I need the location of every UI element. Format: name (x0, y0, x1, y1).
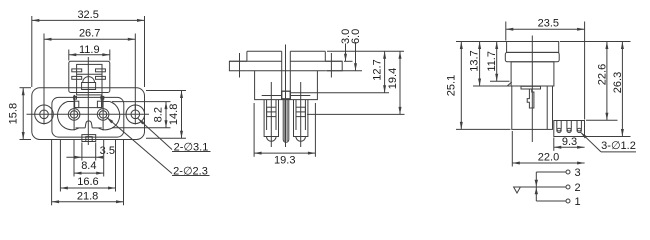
front view: left mounting hole (40, 110, 49, 119)
dimension 6.0 line (355, 44, 357, 71)
front view: right pin inner circle (99, 111, 106, 118)
dimension 16.6 extension line left (59, 139, 61, 192)
dimension 12.7 (384, 51, 386, 92)
latch housing outer rect (69, 61, 110, 92)
svg-text:11.9: 11.9 (79, 44, 100, 56)
side view: latch tongue (527, 89, 534, 108)
schematic: pin 2 terminal circle (566, 185, 570, 189)
dimension 26.7 extension line right (134, 34, 136, 111)
dimension 3.5 extension line left (81, 143, 83, 161)
dimension 19.3 (254, 152, 315, 154)
side view: top cap rect (507, 42, 559, 53)
side view: cap top extension line right (560, 41, 631, 43)
dimension 15.8 extension line top (20, 87, 32, 89)
front view: flange outline (32, 88, 145, 140)
front view: bottom tab outer (82, 135, 96, 142)
side view: second tier rect (505, 52, 559, 61)
dimension 14.8 extension line top (146, 90, 186, 92)
front view: left socket lobe arc (58, 102, 79, 130)
dimension 3.5 extension line right (95, 143, 97, 161)
dimension 26.3 extension line bottom (586, 136, 631, 138)
front view: right hole pocket circle (126, 105, 145, 124)
dimension 16.6 (60, 187, 115, 189)
front view: recess rounded rectangle (52, 97, 124, 137)
side view: body inner wall (546, 86, 548, 129)
dimension 13.7 extension line bottom (473, 85, 511, 87)
side view: terminal block (554, 121, 585, 137)
dimension 32.5 (32, 19, 145, 21)
schematic: pin 3 terminal circle (566, 170, 570, 174)
dimension 15.8 extension line bottom (20, 139, 32, 141)
dimension 8.4 (74, 172, 104, 174)
latch dome chord (83, 82, 95, 84)
svg-text:3-∅1.2: 3-∅1.2 (601, 140, 636, 152)
latch right wall into recess (101, 95, 103, 108)
dimension 22.0 extension line left (511, 131, 513, 167)
dimension 26.7 extension line left (43, 34, 45, 111)
front view: socket flat top shelf left (68, 101, 75, 103)
bottom view: left pin hole middle line (267, 111, 276, 113)
bottom view: left pin hole (267, 107, 276, 116)
dimension 8.2 (165, 102, 167, 128)
svg-text:19.3: 19.3 (274, 155, 295, 167)
svg-text:3: 3 (574, 167, 580, 179)
bottom view: flange top edge right segment (290, 50, 325, 52)
front view: socket flat bottom left segment (76, 127, 86, 129)
front view: right pin centerline (102, 98, 104, 131)
bottom view: right pin bottom arc (296, 137, 306, 142)
dimension 14.8 (181, 91, 183, 139)
side view: terminal pin 3 (577, 121, 581, 132)
dimension 32.5 extension line left (31, 16, 33, 87)
dimension 21.8 (52, 201, 124, 203)
dimension 13.7 (479, 42, 481, 87)
latch right foot (97, 101, 101, 107)
front view: left pin inner circle (70, 111, 77, 118)
dimension 22.6 (606, 42, 608, 121)
bottom view: left pin body (264, 100, 278, 137)
bottom view: right tab centerline (330, 53, 332, 78)
leader 2-dia2.3 underline (172, 175, 210, 177)
side view: terminal pin 1 hole (557, 128, 561, 132)
front view: left hole pocket circle (35, 105, 54, 124)
bottom view: left pin centerline (270, 82, 272, 147)
leader 2-dia3.1 underline (172, 151, 211, 153)
bottom view: flange mid line right (290, 60, 342, 62)
dimension 26.3 (621, 42, 623, 137)
svg-text:2-∅3.1: 2-∅3.1 (174, 142, 209, 154)
dimension 19.3 extension line right (314, 103, 316, 157)
dimension 8.2 extension line top (112, 101, 171, 103)
schematic: pin 1 terminal circle (566, 199, 570, 203)
bottom view: tab top extension line right (344, 60, 353, 62)
front view: bottom tab inner (86, 137, 92, 142)
leader 3-dia1.2 arrow and line (581, 132, 602, 152)
leader 2-dia2.3 arrow and line (107, 117, 172, 173)
schematic: wire pin 1 (536, 200, 566, 202)
svg-text:22.0: 22.0 (538, 151, 559, 163)
svg-text:26.7: 26.7 (79, 28, 100, 40)
svg-text:2: 2 (574, 182, 580, 194)
front view: left hole centerline (43, 104, 45, 125)
side view: body rect (512, 86, 553, 129)
front view: left pin outer circle (68, 109, 80, 121)
dimension 23.5 extension line right / shared (584, 22, 586, 120)
dimension 26.7 (44, 38, 135, 40)
dimension 3.0 line (345, 44, 347, 62)
dimension 12.7 extension line bottom (291, 92, 389, 94)
dimension 9.3 (554, 146, 585, 148)
dimension 19.4 extension line bottom (307, 113, 405, 115)
svg-text:26.3: 26.3 (612, 72, 624, 93)
side view: cap top extension line (456, 41, 507, 43)
side view: neck rect (511, 62, 554, 86)
bottom view: body outline (255, 71, 318, 100)
schematic: contact arrow lower (535, 188, 538, 195)
bottom view: center slot left wall / post side (281, 51, 283, 99)
front view: left pin centerline (73, 98, 75, 131)
dimension 11.9 extension line right (109, 50, 111, 61)
bottom view: vertical centerline (285, 45, 287, 148)
bottom view: center slot right wall / post side (289, 51, 291, 99)
bottom view: shoulder line left segment (262, 95, 282, 97)
svg-text:6.0: 6.0 (350, 29, 362, 44)
svg-text:23.5: 23.5 (538, 17, 559, 29)
latch side bar lower-right (96, 76, 106, 79)
bottom view: left tab (229, 61, 247, 71)
dimension 32.5 extension line right (144, 16, 146, 87)
dimension 22.0 (512, 162, 584, 164)
bottom view: shoulder line right segment (290, 95, 310, 97)
dimension 22.6 extension line bottom (586, 119, 618, 121)
dimension 11.7 (496, 42, 498, 82)
dimension 11.9 extension line left (68, 50, 70, 61)
latch side bar upper-right (96, 69, 106, 72)
svg-text:32.5: 32.5 (77, 9, 98, 21)
side view: latch slot bar (521, 86, 541, 89)
front view: socket flat bottom right segment (92, 127, 102, 129)
bottom view: center post inner lines (285, 100, 287, 141)
latch cross line (77, 73, 102, 75)
front view: socket middle bump (85, 121, 92, 128)
bottom view: center post shaft (283, 100, 289, 143)
schematic: wire pin 3 (536, 171, 566, 173)
dimension 25.1 extension line bottom (456, 128, 511, 130)
side view: terminal pin 2 hole (567, 128, 571, 132)
dimension 25.1 (460, 42, 462, 130)
side view: left chamfer wing (507, 82, 512, 86)
latch side bar upper-left (72, 69, 82, 72)
dimension 21.8 extension line right (123, 140, 125, 205)
bottom view: post head square (282, 91, 291, 99)
leader 3-dia1.2 underline (601, 151, 636, 153)
dimension 3.5 line (66, 156, 99, 158)
dimension 8.4 extension line right (103, 140, 105, 177)
latch dome arc (83, 77, 95, 83)
svg-text:12.7: 12.7 (372, 59, 384, 80)
front view: right mounting hole (131, 110, 140, 119)
schematic: common vertical wire (535, 172, 537, 201)
bottom view: flange bottom edge (247, 70, 325, 72)
dimension 11.7 extension line bottom (490, 80, 510, 82)
latch left foot (74, 101, 78, 107)
latch housing inner rect (77, 64, 102, 95)
bottom view: flange bottom extension line right (327, 70, 362, 72)
front view: vertical centerline (87, 57, 89, 145)
side view: terminal pin 2 (567, 121, 571, 131)
dimension 9.3 extension line left (553, 138, 555, 151)
svg-text:16.6: 16.6 (77, 176, 98, 188)
svg-text:8.4: 8.4 (81, 160, 96, 172)
dimension 23.5 extension line left (505, 22, 507, 41)
svg-text:9.3: 9.3 (562, 136, 577, 148)
bottom view: right pin hole (296, 107, 305, 116)
side view: terminal pin 1 (557, 121, 561, 132)
svg-text:1: 1 (574, 196, 580, 208)
latch side bar lower-left (72, 76, 82, 79)
dimension 16.6 extension line right (115, 139, 117, 192)
svg-text:15.8: 15.8 (8, 103, 20, 124)
svg-text:2-∅2.3: 2-∅2.3 (173, 166, 208, 178)
svg-text:3.5: 3.5 (100, 145, 115, 157)
front view: right pin outer circle (97, 109, 109, 121)
front view: horizontal centerline (27, 113, 150, 115)
bottom view: right pin body (294, 100, 308, 137)
front view: socket flat top shelf right (102, 101, 110, 103)
schematic: wire pin 2 (514, 186, 567, 188)
bottom view: flange left edge (246, 51, 248, 61)
bottom view: flange mid line left (229, 60, 281, 62)
latch left wall into recess (73, 95, 75, 108)
bottom view: flange top extension line right (327, 50, 404, 52)
svg-text:19.4: 19.4 (387, 68, 399, 89)
bottom view: left tab centerline (239, 53, 241, 78)
svg-text:13.7: 13.7 (468, 50, 480, 71)
bottom view: flange top edge left segment (247, 50, 282, 52)
bottom view: flange right edge (324, 51, 326, 61)
svg-text:21.8: 21.8 (77, 191, 98, 203)
svg-text:11.7: 11.7 (486, 51, 498, 72)
schematic: ground triangle on pin 2 wire (514, 187, 521, 193)
dimension 19.4 (399, 51, 401, 114)
leader 2-dia3.1 arrow and line (138, 118, 172, 149)
latch left wall top square (74, 96, 77, 99)
dimension 15.8 (22, 88, 24, 140)
dimension 23.5 (506, 28, 585, 30)
latch wall bottom line (74, 107, 101, 109)
bottom view: right pin hole middle line (296, 111, 305, 113)
dimension 19.3 extension line left (253, 103, 255, 157)
svg-text:14.8: 14.8 (168, 104, 180, 125)
dimension 21.8 extension line left (51, 140, 53, 205)
bottom view: right pin centerline (300, 82, 302, 147)
latch lower small rect (82, 83, 96, 90)
schematic: contact arrow upper (535, 180, 538, 187)
dimension 8.4 extension line left (73, 140, 75, 177)
side view: terminal pin 3 hole (577, 128, 581, 132)
bottom view: left pin inner edges (267, 100, 276, 130)
svg-text:8.2: 8.2 (153, 107, 165, 122)
front view: right hole centerline (134, 104, 136, 125)
side view: vertical centerline (531, 36, 533, 143)
front view: right socket lobe arc (99, 102, 120, 130)
svg-text:22.6: 22.6 (596, 64, 608, 85)
dimension 11.9 (69, 54, 110, 56)
latch right wall top square (101, 96, 104, 99)
bottom view: right tab (325, 61, 342, 71)
bottom view: left pin bottom arc (267, 137, 277, 142)
bottom view: right pin inner edges (296, 100, 305, 130)
dimension 8.2 extension line bottom (112, 127, 171, 129)
svg-text:25.1: 25.1 (446, 75, 458, 96)
dimension 14.8 extension line bottom (146, 137, 186, 139)
